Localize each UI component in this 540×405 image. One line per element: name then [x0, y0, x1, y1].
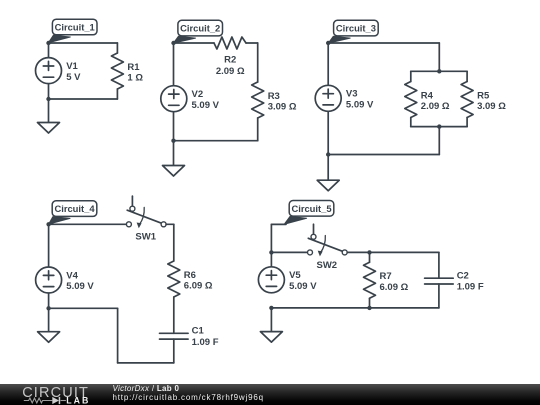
svg-text:Circuit_5: Circuit_5 [291, 203, 331, 214]
wire branch top rail [411, 70, 467, 72]
resistor R6 [168, 261, 180, 297]
junction dot V5 bottom [269, 306, 273, 310]
svg-text:C2: C2 [457, 271, 469, 282]
wire ground stem C4 [48, 308, 50, 331]
svg-text:1.09 F: 1.09 F [457, 282, 484, 293]
wire C2 bottom lead [438, 284, 440, 308]
svg-text:3.09 Ω: 3.09 Ω [477, 101, 506, 112]
wire V1 bottom lead [48, 84, 50, 99]
net label flag Circuit_2 [173, 20, 222, 43]
capacitor C1 [160, 333, 189, 339]
svg-text:2.09 Ω: 2.09 Ω [421, 101, 450, 112]
wire SW1 to corner [166, 223, 174, 225]
wire bottom rail C1 [49, 98, 118, 100]
wire ground stem C3 [327, 155, 329, 181]
resistor R7 [364, 262, 376, 298]
junction dot bottom C1 [46, 97, 50, 101]
wire bottom rail C5 [271, 307, 439, 309]
wire V4 bottom rail [49, 307, 118, 309]
wire R3 bottom lead [257, 118, 259, 141]
junction dot node Circuit_3 [326, 41, 330, 45]
svg-text:1 Ω: 1 Ω [127, 73, 143, 84]
CircuitLab logo [18, 384, 113, 405]
junction dot node Circuit_4 [46, 222, 50, 226]
wire bottom rail C3 [328, 154, 439, 156]
wire right drop C2 [257, 43, 259, 82]
net label flag Circuit_5 [284, 201, 334, 225]
footer bar [0, 384, 540, 405]
ground [163, 166, 185, 177]
svg-text:5.09 V: 5.09 V [346, 100, 374, 111]
svg-text:V4: V4 [66, 270, 78, 281]
svg-text:V1: V1 [66, 61, 78, 72]
junction dot V4 bottom [46, 306, 50, 310]
junction dot node Circuit_2 [171, 41, 175, 45]
wire rail to C2 branch [370, 251, 439, 253]
wire V3 top lead [327, 43, 329, 85]
capacitor C2 [425, 278, 454, 284]
junction dot node Circuit_1 [46, 41, 50, 45]
wire ground stem C5 [270, 308, 272, 332]
svg-text:5.09 V: 5.09 V [66, 281, 94, 292]
svg-text:5.09 V: 5.09 V [289, 281, 317, 292]
wire right drop to branch [438, 43, 440, 71]
svg-text:R7: R7 [380, 271, 392, 282]
junction dot left rail C5 [269, 250, 273, 254]
svg-text:SW1: SW1 [135, 232, 156, 243]
wire C1 bottom lead [173, 339, 175, 363]
wire top rail C4 [49, 223, 127, 225]
resistor R4 [405, 82, 417, 118]
svg-text:SW2: SW2 [317, 260, 338, 271]
svg-text:5 V: 5 V [66, 72, 81, 83]
svg-text:R3: R3 [268, 91, 280, 102]
junction dot branch bottom [437, 124, 441, 128]
svg-text:3.09 Ω: 3.09 Ω [268, 102, 297, 113]
svg-text:6.09 Ω: 6.09 Ω [184, 281, 213, 292]
svg-text:R5: R5 [477, 90, 490, 101]
svg-text:V2: V2 [192, 89, 204, 100]
voltage source V4 [36, 267, 62, 293]
wire R5 bottom lead [466, 118, 468, 127]
resistor R2 [214, 37, 246, 49]
wire rail to R2 [174, 42, 215, 44]
svg-text:R4: R4 [421, 90, 434, 101]
voltage source V3 [315, 85, 341, 111]
wire rail to SW2 [271, 251, 307, 253]
wire ground stem C1 [48, 99, 50, 123]
svg-text:Circuit_4: Circuit_4 [54, 203, 95, 214]
wire R4 bottom lead [410, 118, 412, 127]
svg-text:V3: V3 [346, 89, 358, 100]
voltage source V2 [161, 86, 187, 112]
wire SW2 to R7 [347, 251, 369, 253]
wire V2 top lead [173, 43, 175, 85]
wire flag stub C5 [271, 223, 286, 225]
wire R7 top lead [369, 252, 371, 262]
junction dot R7 bottom [367, 306, 371, 310]
wire ground stem C2 [173, 141, 175, 166]
svg-text:Circuit_3: Circuit_3 [336, 23, 376, 34]
wire R1 bottom lead [116, 89, 118, 99]
wire R7 bottom lead [369, 298, 371, 308]
wire left drop C5 [270, 224, 272, 266]
wire bottom rail C4 [118, 362, 174, 364]
junction dot branch top [437, 69, 441, 73]
switch SW1 (SPDT toggle) [126, 196, 166, 228]
ground [38, 123, 60, 134]
svg-text:Circuit_2: Circuit_2 [180, 23, 220, 34]
resistor R1 [111, 53, 123, 89]
wire R2 to corner [246, 42, 258, 44]
resistor R3 [252, 82, 264, 118]
svg-text:C1: C1 [192, 326, 205, 337]
svg-text:LAB: LAB [66, 396, 90, 405]
wire V4 top lead [48, 224, 50, 266]
wire C2 top lead [438, 252, 440, 278]
svg-text:V5: V5 [289, 270, 301, 281]
svg-text:R6: R6 [184, 270, 196, 281]
voltage source V1 [36, 58, 62, 84]
voltage source V5 [258, 267, 284, 293]
wire R1 top lead [116, 43, 118, 53]
wire top rail C1 [49, 42, 118, 44]
svg-text:R1: R1 [127, 62, 140, 73]
wire bottom riser C4 [117, 308, 119, 363]
svg-text:1.09 F: 1.09 F [192, 337, 219, 348]
wire R5 top lead [466, 71, 468, 81]
wire R6 to C1 [173, 297, 175, 333]
junction dot bottom C2 [171, 139, 175, 143]
svg-text:2.09 Ω: 2.09 Ω [216, 66, 245, 77]
svg-text:6.09 Ω: 6.09 Ω [380, 282, 409, 293]
wire V2 bottom lead [173, 112, 175, 141]
switch SW2 (SPDT toggle) [308, 224, 348, 256]
wire V3 bottom lead [327, 112, 329, 155]
net label flag Circuit_1 [48, 19, 97, 43]
wire R4 top lead [410, 71, 412, 81]
wire top rail C3 [328, 42, 439, 44]
ground [260, 332, 282, 343]
ground [38, 332, 60, 343]
wire right drop C4 [173, 224, 175, 261]
svg-text:5.09 V: 5.09 V [192, 100, 220, 111]
svg-text:Circuit_1: Circuit_1 [55, 22, 95, 33]
wire V1 top lead [48, 43, 50, 57]
net label flag Circuit_4 [49, 201, 97, 224]
resistor R5 [461, 82, 473, 118]
junction dot R7 top [367, 250, 371, 254]
wire bottom rail C2 [174, 140, 258, 142]
junction dot ground C3 [326, 152, 330, 156]
ground [317, 180, 339, 191]
wire branch stem down [438, 127, 440, 155]
svg-text:R2: R2 [224, 55, 236, 66]
net label flag Circuit_3 [328, 20, 378, 43]
wire V4 bottom lead [48, 293, 50, 308]
wire branch bottom rail [411, 126, 467, 128]
